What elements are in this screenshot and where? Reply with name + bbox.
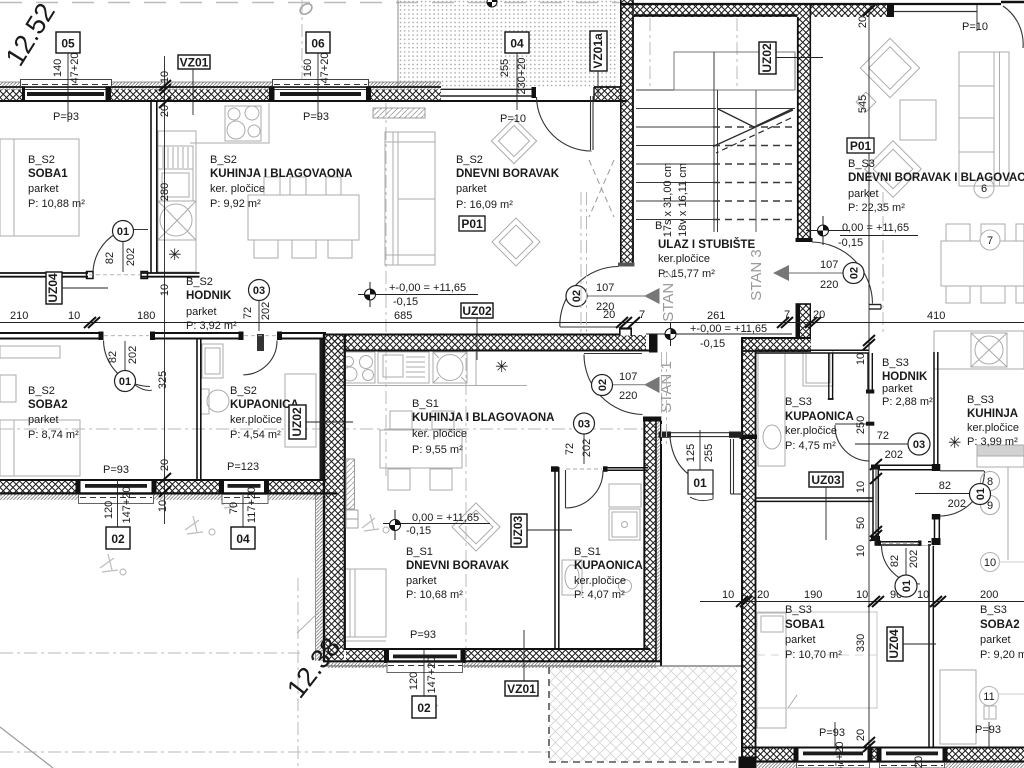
node room texts B_S3 soba2 [980,604,1024,661]
svg-text:parket: parket [186,306,217,318]
node label UZ04 left [46,272,108,304]
svg-text:-0,15: -0,15 [838,237,863,249]
svg-text:P: 3,92 m²: P: 3,92 m² [186,320,237,332]
svg-text:B: B [655,220,662,232]
node level marker B_S1 [383,510,490,540]
svg-text:72: 72 [242,307,254,319]
svg-text:P: 8,74 m²: P: 8,74 m² [28,429,79,441]
svg-text:20: 20 [857,16,869,28]
svg-text:B_S2: B_S2 [456,154,483,166]
svg-text:10: 10 [159,284,171,296]
svg-text:325: 325 [157,371,169,389]
svg-text:✳: ✳ [495,359,508,376]
node room texts B_S1 kuhinja [412,398,554,456]
node window labels top 04 [499,32,529,110]
svg-text:P01: P01 [850,139,872,153]
wall stairwell top band [620,3,1001,17]
wall B_S2 bottom y479-494.5 [0,480,337,500]
svg-text:ker.pločice: ker.pločice [230,414,282,426]
svg-text:190: 190 [804,589,822,601]
svg-text:B_S2: B_S2 [210,154,237,166]
svg-text:01: 01 [693,476,707,490]
node window labels bottom 02 B_S1 [408,629,438,718]
svg-text:P: 16,09 m²: P: 16,09 m² [456,199,513,211]
svg-text:P=10: P=10 [500,113,526,125]
svg-text:B_S2: B_S2 [28,385,55,397]
svg-text:03: 03 [578,419,590,431]
svg-text:02: 02 [417,701,431,715]
svg-text:parket: parket [980,634,1011,646]
window B_S1 bottom [384,648,466,673]
svg-text:202: 202 [581,439,593,457]
node bed B_S2 soba1 [0,139,79,236]
svg-text:-0,15: -0,15 [700,338,725,350]
svg-text:P: 4,07 m²: P: 4,07 m² [574,589,625,601]
svg-text:10: 10 [856,589,868,601]
svg-text:ker.pločice: ker.pločice [658,253,710,265]
door B_S2 soba1 arc [93,234,116,272]
svg-text:ker.pločice: ker.pločice [574,575,626,587]
node STAN2 arrow [586,270,677,321]
node STAN3 arrow [773,259,843,291]
svg-text:685: 685 [394,310,412,322]
svg-text:B_S1: B_S1 [574,546,601,558]
svg-text:01: 01 [117,226,129,238]
node nightstand B_S3 soba2 [984,706,996,719]
svg-text:202: 202 [885,449,903,461]
door B_S3 soba1 arc [882,546,921,584]
svg-text:10: 10 [722,589,734,601]
svg-text:202: 202 [908,550,920,568]
node vent shaft B_S1 west [346,459,355,509]
wall B_S1 top y333.5-351.5 hatched [323,329,658,353]
node stairwell interior [636,52,795,232]
node furniture circles gray [974,178,994,198]
svg-text:DNEVNI BORAVAK: DNEVNI BORAVAK [406,560,510,572]
door B_S3 kuhinja leaf+arc [932,471,985,520]
wire right vertical dimension line x869 [868,8,870,755]
svg-text:P=93: P=93 [975,724,1001,736]
wire left vertical dimension line x164.5 [164,56,166,524]
svg-text:107: 107 [596,282,614,294]
svg-text:B_S2: B_S2 [186,276,213,288]
node sink B_S2 [158,201,196,240]
svg-text:parket: parket [456,183,487,195]
svg-text:82: 82 [939,480,951,492]
svg-text:ker.pločice: ker.pločice [967,422,1019,434]
node dining table B_S2 [248,195,359,240]
svg-text:P: 10,68 m²: P: 10,68 m² [406,589,463,601]
node door circle 02 entry B_S3 rotated [843,263,864,284]
svg-text:10: 10 [855,481,867,493]
node sofa B_S2 [385,132,435,265]
node terrace stipple top [398,0,617,87]
wall hodnik bottom y464.5-470.5 [879,464,940,471]
node window labels bottom 02 B_S2 [103,464,133,549]
svg-text:202: 202 [948,498,966,510]
wall top exterior band B_S2 [0,82,627,102]
svg-text:P=10: P=10 [962,21,988,33]
node door circle 03 kupaonica B_S2 [249,280,270,301]
svg-text:B_S2: B_S2 [28,154,55,166]
node level marker terrace edge [487,0,497,7]
svg-text:255: 255 [703,444,715,462]
svg-text:11: 11 [983,691,994,703]
node room texts B_S2 kuhinja [210,154,352,210]
node terrace hatch bottom [398,666,741,762]
svg-text:261: 261 [707,310,725,322]
node door circles 8 01 9 kuhinja B_S3 [981,472,1000,491]
node bed B_S3 soba1 [757,613,786,728]
svg-text:UZ02: UZ02 [462,304,492,318]
svg-text:P: 4,54 m²: P: 4,54 m² [230,429,281,441]
svg-text:82: 82 [889,555,901,567]
wall step at B_S2 entry x619-632 [619,328,632,337]
wall B_S1 bath west x554.5-559 [555,467,559,649]
node label VZ01 [178,55,210,115]
svg-text:P: 9,92 m²: P: 9,92 m² [210,198,261,210]
svg-text:P=93: P=93 [53,111,79,123]
svg-text:20: 20 [913,756,925,768]
svg-text:255: 255 [499,59,511,77]
svg-text:47+20: 47+20 [69,53,81,84]
svg-text:ULAZ I STUBIŠTE: ULAZ I STUBIŠTE [658,238,755,251]
svg-text:200: 200 [980,589,998,601]
svg-text:120: 120 [408,672,420,690]
svg-text:05: 05 [61,37,75,51]
svg-text:P: 9,20 m²: P: 9,20 m² [980,649,1024,661]
svg-text:P=123: P=123 [227,461,259,473]
svg-text:parket: parket [882,383,913,395]
svg-text:0,00 = +11,65: 0,00 = +11,65 [412,512,479,524]
wall B_S2 kitchen west x150-158 [151,101,157,273]
svg-text:ker. pločice: ker. pločice [412,428,467,440]
svg-text:P=93: P=93 [103,464,129,476]
svg-text:06: 06 [311,37,325,51]
svg-text:✳: ✳ [948,435,961,452]
node room texts B_S2 kupaonica [230,385,299,441]
svg-text:-0,15: -0,15 [406,525,431,537]
svg-text:20: 20 [603,309,615,321]
wire gray diagonal bottom left [0,727,53,768]
node wardrobe B_S1 [339,569,386,637]
svg-text:+-0,00 = +11,65: +-0,00 = +11,65 [690,323,767,335]
door terrace B_S2 leaf+arc [537,96,594,151]
svg-text:-0,15: -0,15 [393,296,418,308]
wall B_S1 west x323-346 [316,334,345,662]
node level marker B_S2 [358,282,478,308]
node closet B_S2 soba2 [0,375,16,402]
svg-text:ker. pločice: ker. pločice [210,183,265,195]
svg-text:410: 410 [927,310,945,322]
svg-text:P=93: P=93 [819,727,845,739]
svg-text:20: 20 [855,729,867,741]
window terrace glazing VZ01a [441,87,536,98]
svg-text:B_S1: B_S1 [412,398,439,410]
svg-text:250: 250 [855,416,867,434]
wall kupa/soba1 divider lower x872-879 [871,465,880,542]
wall stair west x620-634 [618,4,635,267]
node room texts B_S3 kupaonica [785,396,854,452]
node room texts B_S3 kuhinja [967,394,1019,448]
svg-text:147+20: 147+20 [426,656,438,693]
wall B_S2 kupaonica east x319.5-325 [320,340,326,481]
window B_S2 kupaonica bottom [219,479,269,504]
node kitchen counter left B_S2 [158,131,196,272]
window B_S2 soba2 bottom [76,479,157,504]
svg-text:82: 82 [104,252,116,264]
svg-text:117+20: 117+20 [246,487,258,523]
node armchairs B_S2 [491,118,536,163]
node label UZ03 B_S1 rotated [511,514,572,547]
svg-text:10: 10 [157,500,169,512]
node coffee table B_S3 [900,100,936,140]
svg-text:parket: parket [406,575,437,587]
node room texts stairwell [655,220,755,280]
door B_S2 soba2 arc [104,341,151,387]
node door circle 01 soba2 B_S2 [115,371,136,392]
door STAN1 walkway gate [659,432,743,495]
svg-text:B_S3: B_S3 [967,394,994,406]
svg-text:✳: ✳ [168,247,181,264]
svg-text:10: 10 [68,310,80,322]
node stove B_S2 [225,106,261,141]
node washbasin B_S2 bath [207,390,229,412]
svg-text:ker.pločice: ker.pločice [785,425,837,437]
node label VZ01a [590,31,607,96]
node label UZ04 B_S3 rotated [887,627,936,661]
svg-text:P: 9,55 m²: P: 9,55 m² [412,444,463,456]
svg-text:P: 3,99 m²: P: 3,99 m² [967,436,1018,448]
svg-text:147+20: 147+20 [121,486,133,523]
svg-text:72: 72 [564,443,576,455]
svg-text:545: 545 [857,95,869,113]
node room texts B_S2 soba1 [28,154,85,210]
node vanity B_S3 bath [803,350,833,386]
svg-text:VZ01: VZ01 [507,682,536,696]
node room texts B_S3 dnevni [847,138,1024,214]
svg-text:7: 7 [784,309,790,321]
svg-text:82: 82 [107,351,119,363]
wall corridor B_S2 south y332-339.5 [0,331,326,351]
svg-text:0,00 = +11,65: 0,00 = +11,65 [842,222,909,234]
svg-text:SOBA2: SOBA2 [28,399,68,411]
svg-text:03: 03 [253,285,265,297]
wall piece below stair east door x796-811 [796,304,812,338]
svg-text:04: 04 [510,37,524,51]
window W06 top [269,80,371,102]
node void X marker dashed [589,160,614,217]
node armchair B_S1 [452,503,500,551]
svg-text:17s x 31,00 cm: 17s x 31,00 cm [662,163,674,238]
wall B_S3 bottom y746-762.5 [739,748,1024,768]
node steps outside B_S1 [346,510,358,519]
node washing machine B_S2 bath [202,344,223,378]
wall stair/terrace return top [594,87,621,102]
wall B_S1 east x643-661.5 [643,417,662,667]
svg-text:180: 180 [137,310,155,322]
node cabinet B_S1 bath [609,484,641,507]
node door circles and door dims [104,178,1024,718]
svg-text:20: 20 [159,105,171,117]
wall B_S1 bath north y467-470.5 [551,466,648,472]
svg-text:330: 330 [855,634,867,652]
svg-text:B_S3: B_S3 [785,396,812,408]
svg-text:HODNIK: HODNIK [186,290,232,302]
svg-text:UZ03: UZ03 [811,473,841,487]
svg-text:SOBA1: SOBA1 [28,168,68,180]
svg-text:02: 02 [111,532,125,546]
svg-text:10: 10 [855,353,867,365]
svg-text:107: 107 [619,371,637,383]
wall B_S3 kupaonica bottom y497.3-502 [756,498,873,501]
wire B_S3 rooms dimension line y601.5 [700,601,1024,603]
wall B_S2 soba2/kupaonica divider x196-201.5 [197,340,201,480]
svg-text:10: 10 [917,589,929,601]
svg-text:DNEVNI BORAVAK: DNEVNI BORAVAK [456,168,560,180]
svg-text:7: 7 [639,309,645,321]
svg-text:20: 20 [757,589,769,601]
svg-text:P=93: P=93 [410,629,436,641]
svg-text:10: 10 [855,545,867,557]
svg-text:01: 01 [119,376,131,388]
svg-text:B_S3: B_S3 [882,357,909,369]
node room texts B_S3 soba1 [785,604,842,661]
wall vestibule bottom B_S3 y337-352 [741,337,811,352]
node level marker corridor [646,310,792,350]
wall soba1 top y541-545.5 [875,541,932,546]
wall B_S3 west x741-756 [740,337,758,757]
svg-text:KUHINJA I BLAGOVAONA: KUHINJA I BLAGOVAONA [210,168,352,180]
svg-text:02: 02 [597,379,609,391]
svg-text:B_S3: B_S3 [785,604,812,616]
node fridge B_S2 [158,169,193,201]
node bed B_S2 soba2 [0,420,80,476]
svg-text:160: 160 [302,59,314,77]
svg-text:KUHINJA I BLAGOVAONA: KUHINJA I BLAGOVAONA [412,412,554,424]
svg-text:SOBA1: SOBA1 [785,619,825,631]
node door circle 02 entry B_S2 rotated [566,286,587,307]
svg-text:10: 10 [984,557,996,569]
svg-text:18v x 16,11 cm: 18v x 16,11 cm [677,163,689,237]
svg-text:STAN 3: STAN 3 [748,249,765,300]
node label UZ02 stair [759,42,823,74]
svg-text:210: 210 [10,310,28,322]
svg-text:120: 120 [103,501,115,519]
wall stub A B_S3 kupaonica x828-833 [828,353,834,399]
svg-text:280: 280 [159,183,171,201]
node window labels top W06 [302,32,331,123]
node shower B_S1 bath [609,509,640,540]
node room texts B_S2 dnevni [456,154,560,231]
node room inset B_S3 soba1 [757,612,877,708]
svg-text:P01: P01 [461,217,483,231]
door B_S3 entry top right [977,2,1024,48]
node door circle 02 entry B_S1 rotated [592,375,613,396]
node vent shaft hatch below top wall [373,108,425,118]
svg-text:47+20: 47+20 [319,53,331,84]
svg-text:202: 202 [125,248,137,266]
node label UZ02 B_S2 bath rotated [289,405,353,439]
svg-text:147+20: 147+20 [834,741,846,768]
svg-text:7: 7 [987,235,993,247]
wire main horizontal dimension line y322.5 [0,322,1024,324]
node room texts B_S1 dnevni [406,546,510,601]
svg-text:P: 22,35 m²: P: 22,35 m² [848,202,905,214]
node STAN1 arrow [612,361,675,412]
wire stan boundary dashdot pairs [581,192,667,445]
node sofa B_S3 [959,52,1009,186]
node dining table B_S1 [380,430,462,468]
node room texts B_S1 kupaonica [574,546,643,601]
svg-text:140: 140 [52,59,64,77]
svg-text:202: 202 [260,302,272,320]
node level marker B_S3 [806,216,918,249]
node washbasin B_S1 bath [562,560,582,595]
node shelf B_S2 [158,146,193,169]
node label UZ02 B_S2 dnevni [461,303,493,360]
wire hodnik wall dim line x876 [875,464,877,545]
svg-text:DNEVNI BORAVAK I BLAGOVAONA: DNEVNI BORAVAK I BLAGOVAONA [848,172,1024,184]
wall hodnik/kuhinja x933.3-938.4 [934,352,938,464]
wall B_S3 kupaonica top y349.8-353.2 [756,350,869,353]
node door circle 03 bath B_S1 [574,413,595,434]
svg-text:72: 72 [877,430,889,442]
svg-text:SOBA2: SOBA2 [980,619,1020,631]
node garden marks gray [100,492,438,709]
node label VZ01 bottom [505,630,538,696]
wall hodnik west upper x867.3-873 [866,353,874,426]
wall terrace side wall vertical x620-634 upper [620,0,634,17]
node door thresholds dashed [89,275,919,544]
svg-text:B_S3: B_S3 [980,604,1007,616]
svg-text:20: 20 [159,459,171,471]
svg-text:6: 6 [981,183,987,195]
node armchairs B_S3 top [860,38,919,97]
svg-text:02: 02 [849,267,861,279]
node room texts B_S2 soba2 [28,385,79,441]
wall stair east x797-811 [796,4,813,243]
svg-text:01: 01 [901,580,913,592]
svg-text:220: 220 [820,279,838,291]
svg-text:UZ04: UZ04 [46,273,60,303]
door B_S1 bath leaf+arc [566,470,604,508]
svg-text:P: 15,77 m²: P: 15,77 m² [658,268,715,280]
svg-text:220: 220 [619,390,637,402]
svg-text:+-0,00 = +11,65: +-0,00 = +11,65 [389,282,466,294]
wall kuhinja/soba2 x933.8-940 y516-540 [932,519,941,545]
svg-text:B_S3: B_S3 [848,158,875,170]
svg-text:parket: parket [785,634,816,646]
svg-text:70: 70 [228,502,240,514]
node wardrobe B_S3 soba2 [940,670,976,744]
svg-text:parket: parket [848,188,879,200]
svg-text:KUPAONICA: KUPAONICA [785,411,854,423]
node label UZ03 B_S3 [809,472,843,540]
svg-text:202: 202 [127,346,139,364]
wire top dashed line [0,2,622,4]
svg-text:VZ01: VZ01 [180,56,209,70]
wall B_S1 bottom y648-663 [323,649,662,668]
node diagonal glyph top [298,2,314,17]
door B_S3 kupaonica leaf+arc [835,424,870,461]
wall corridor B_S2 north y272-277.5 [0,271,200,279]
svg-text:parket: parket [28,414,59,426]
window B_S3 soba1 bottom [794,747,873,768]
wire gray diagonal near 12.38 [297,612,319,633]
svg-text:230+20: 230+20 [516,57,528,94]
svg-text:04: 04 [236,532,250,546]
